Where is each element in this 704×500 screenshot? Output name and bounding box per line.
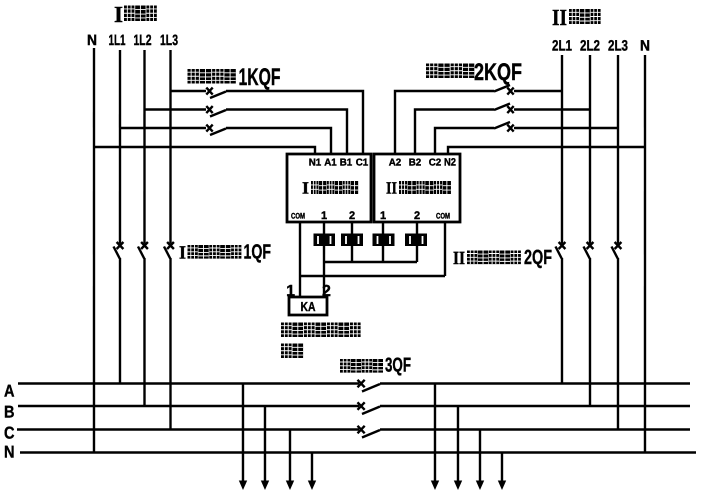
- wire N right vertical: [644, 55, 646, 452]
- svg-text:1L3: 1L3: [160, 32, 178, 49]
- svg-text:N1: N1: [309, 157, 322, 168]
- wire 2L2 vertical to bus B: [589, 258, 591, 406]
- bus A (left segment): [18, 382, 359, 384]
- feeder arrow N-left: [308, 452, 316, 490]
- breaker 2QF pole 3: [611, 242, 621, 259]
- svg-text:II: II: [453, 249, 465, 269]
- svg-text:2L1: 2L1: [552, 38, 572, 55]
- label: control supply changeover relay (line 1): [281, 322, 361, 337]
- svg-text:B: B: [4, 402, 15, 421]
- wire row3 right (pin C2 to 2KQF): [435, 128, 494, 154]
- wire 2L1 vertical (above 2QF): [561, 55, 563, 244]
- switch 2KQF pole 3: [494, 122, 514, 132]
- svg-text:I: I: [302, 178, 309, 197]
- svg-text:A2: A2: [389, 158, 402, 169]
- svg-text:2QF: 2QF: [524, 246, 552, 269]
- label bus-tie switch 3QF: [340, 354, 411, 376]
- wire pin1-I down to relay pin 2: [323, 222, 325, 297]
- wire row2 left (1L2 to 1KQF): [145, 108, 207, 110]
- svg-text:2L3: 2L3: [608, 38, 628, 55]
- feeder arrow B-right: [454, 406, 462, 490]
- svg-text:2L2: 2L2: [580, 38, 600, 55]
- wire 1L2 vertical (above 1QF): [143, 50, 145, 244]
- svg-text:KA: KA: [300, 299, 315, 314]
- feeder arrow C-right: [476, 430, 484, 491]
- svg-text:N: N: [87, 32, 97, 49]
- svg-text:1L2: 1L2: [134, 32, 152, 49]
- wire row3 left (1L1 to 1KQF): [120, 127, 206, 129]
- svg-text:COM: COM: [291, 211, 305, 220]
- svg-text:N: N: [640, 38, 650, 55]
- feeder arrow C-left: [286, 429, 294, 490]
- label control switch 1KQF: [188, 64, 281, 91]
- bus C (left segment): [17, 428, 359, 430]
- wire COM-I down to relay pin 1: [299, 222, 301, 297]
- svg-text:A1: A1: [324, 157, 337, 168]
- svg-text:B2: B2: [409, 158, 422, 169]
- wire 2L2 vertical (above 2QF): [589, 55, 591, 244]
- wire row1 left (1L3 to 1KQF): [171, 90, 207, 92]
- bus B (right segment): [380, 405, 690, 407]
- svg-text:C1: C1: [356, 158, 369, 169]
- bus N: [20, 451, 696, 453]
- svg-text:2: 2: [414, 210, 420, 222]
- switch 2KQF pole 1: [494, 85, 514, 95]
- svg-text:2KQF: 2KQF: [474, 59, 522, 86]
- changeover controller U1 (section I): [287, 154, 371, 222]
- wire junction row (COM): [300, 275, 445, 277]
- wire 1L1 vertical (above 1QF): [119, 50, 121, 244]
- svg-text:1KQF: 1KQF: [239, 64, 281, 91]
- breaker 1QF pole 3: [164, 242, 174, 259]
- fuse FU1: [314, 233, 336, 246]
- switch 1KQF pole 2: [206, 106, 226, 116]
- wire 1L3 vertical to bus C: [169, 258, 171, 430]
- wire row3 left to pin A1: [226, 128, 331, 154]
- svg-text:N2: N2: [444, 157, 456, 169]
- svg-text:1: 1: [321, 210, 327, 222]
- wire pin2-I down: [351, 222, 353, 262]
- breaker 2QF pole 1: [555, 242, 565, 259]
- svg-text:II: II: [386, 179, 397, 198]
- feeder arrow A-left: [239, 383, 247, 490]
- label: control supply changeover relay (line 2): [281, 343, 303, 358]
- breaker 1QF pole 1: [113, 242, 123, 259]
- feeder arrow B-left: [261, 406, 269, 490]
- wire row2 right to 2L2: [514, 108, 590, 110]
- node: section I supply title: [114, 2, 157, 27]
- wire 2L1 vertical to bus A: [561, 258, 563, 383]
- svg-text:1L1: 1L1: [109, 32, 126, 49]
- svg-text:C: C: [4, 423, 15, 442]
- changeover controller U2 (section II): [374, 154, 460, 222]
- bus C (right segment): [380, 428, 690, 430]
- feeder arrow N-right: [498, 453, 506, 491]
- wire row4 left (N to pin N1): [94, 147, 315, 154]
- wire 1L3 vertical (above 1QF): [169, 50, 171, 244]
- wire 2L3 vertical to bus C: [617, 258, 619, 430]
- breaker 1QF pole 2: [138, 242, 148, 259]
- wire row3 right to 2L3: [514, 127, 618, 129]
- svg-text:C2: C2: [429, 158, 442, 169]
- switch 2KQF pole 2: [494, 104, 514, 114]
- svg-text:1: 1: [380, 210, 386, 222]
- svg-text:II: II: [552, 5, 567, 30]
- svg-text:I: I: [179, 243, 186, 263]
- svg-text:1QF: 1QF: [243, 240, 271, 263]
- relay KA: [289, 297, 327, 315]
- svg-text:B1: B1: [340, 157, 353, 168]
- bus A (right segment): [380, 382, 690, 384]
- node: section II supply title: [552, 5, 601, 30]
- fuse FU2: [341, 233, 363, 246]
- breaker 2QF pole 2: [583, 242, 593, 259]
- wire pin1-II down: [382, 222, 384, 262]
- label control switch 2KQF: [426, 59, 522, 86]
- wire 1L1 vertical to bus A: [119, 258, 121, 383]
- switch 1KQF pole 3: [206, 125, 226, 135]
- wire row2 left to pin B1: [226, 109, 347, 154]
- svg-text:I: I: [114, 2, 123, 27]
- wire 1L2 vertical to bus B: [143, 258, 145, 406]
- label section I supply breaker 1QF: [179, 240, 271, 263]
- wire pin2-II down: [416, 222, 418, 262]
- wire row4 right (pin N2 to N): [448, 147, 645, 154]
- svg-text:2: 2: [349, 210, 355, 222]
- bus-tie 3QF pole C: [357, 426, 380, 438]
- wire 2L3 vertical (above 2QF): [617, 55, 619, 244]
- bus B (left segment): [18, 405, 359, 407]
- wire row1 left to pin C1: [226, 91, 363, 154]
- svg-text:3QF: 3QF: [385, 355, 411, 377]
- wire N left vertical: [93, 48, 95, 452]
- wire COM-II down: [444, 222, 446, 276]
- fuse FU3: [373, 234, 395, 247]
- svg-text:A: A: [4, 381, 15, 400]
- bus-tie 3QF pole B: [357, 402, 380, 414]
- wire junction row (pins): [324, 261, 417, 263]
- wire row2 right (pin B2 to 2KQF): [415, 110, 494, 155]
- wire row1 right to 2L1: [514, 90, 562, 92]
- svg-text:COM: COM: [436, 212, 450, 221]
- label section II supply breaker 2QF: [453, 246, 552, 269]
- wire row1 right (pin A2 to 2KQF): [395, 91, 494, 154]
- fuse FU4: [405, 234, 427, 247]
- feeder arrow A-right: [431, 384, 439, 491]
- switch 1KQF pole 1: [206, 88, 226, 98]
- svg-text:N: N: [4, 442, 15, 461]
- bus-tie 3QF pole A: [357, 380, 380, 392]
